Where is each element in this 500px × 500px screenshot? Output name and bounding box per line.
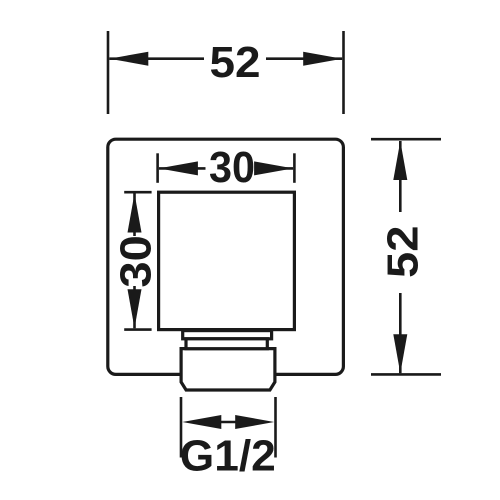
svg-text:30: 30 (209, 143, 255, 192)
svg-text:52: 52 (210, 38, 261, 87)
svg-text:52: 52 (379, 226, 428, 279)
svg-text:G1/2: G1/2 (180, 432, 276, 481)
svg-text:30: 30 (111, 235, 160, 288)
